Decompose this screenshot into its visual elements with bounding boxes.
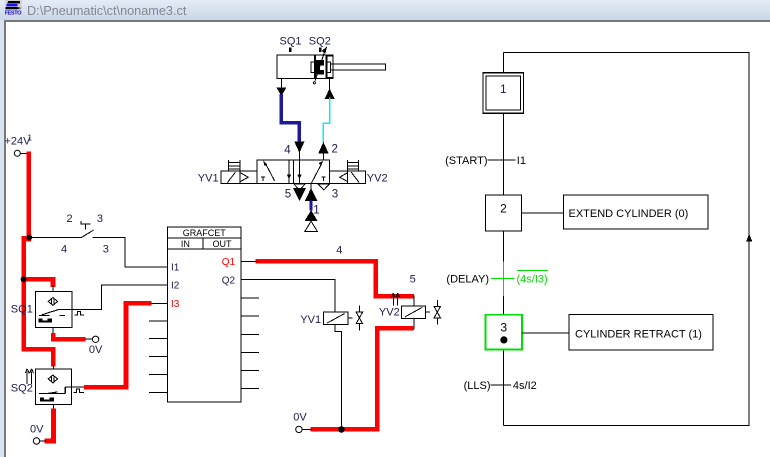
compressed air source (port 1) bbox=[305, 221, 317, 231]
junction node (24V/SQ1) bbox=[21, 276, 27, 282]
svg-text:4: 4 bbox=[336, 245, 342, 257]
wire 0V stub (rail) bbox=[302, 428, 312, 430]
svg-text:YV2: YV2 bbox=[379, 306, 400, 318]
wire 24V to SQ2 (red) bbox=[24, 349, 54, 366]
SQ1 contact (open) bbox=[39, 309, 65, 315]
wire 0V stub (SQ1) bbox=[85, 338, 92, 340]
junction node (0V rail) bbox=[338, 426, 345, 433]
svg-text:Q2: Q2 bbox=[222, 275, 236, 286]
transition START tick bbox=[487, 159, 515, 161]
solenoid YV1 (valve left) bbox=[221, 171, 257, 183]
wire SQ2 output pin bbox=[65, 386, 85, 388]
svg-text:IN: IN bbox=[181, 239, 190, 249]
proximity switch SQ1 box bbox=[35, 291, 72, 327]
valve 1V1 body (5/2 way) bbox=[257, 160, 330, 184]
wire 24V rail upper (red) bbox=[26, 151, 31, 241]
svg-text:Q1: Q1 bbox=[222, 257, 236, 268]
svg-text:SQ2: SQ2 bbox=[309, 35, 331, 47]
svg-text:2: 2 bbox=[332, 144, 338, 156]
pressure segment port 1 (dark blue) bbox=[310, 201, 313, 211]
active step dot bbox=[500, 336, 507, 343]
sensor mark SQ1 bbox=[289, 48, 291, 53]
wire step3 to action bbox=[522, 332, 569, 334]
svg-text:3: 3 bbox=[97, 213, 103, 225]
edge symbol SQ2 bbox=[74, 389, 84, 392]
svg-text:SQ2: SQ2 bbox=[11, 383, 33, 395]
switch S1 actuator symbol bbox=[80, 221, 90, 229]
wire 24V rail lower (red) bbox=[21, 236, 26, 352]
wire valve port 4 bbox=[298, 152, 300, 160]
wire SQ2 top pin bbox=[52, 364, 54, 369]
solenoid YV2 (valve right) bbox=[330, 171, 366, 183]
SQ1 sensor diamond bbox=[48, 298, 57, 306]
cylinder piston bbox=[311, 56, 331, 79]
exhaust line (cyan) valve port 2 to cylinder bbox=[323, 98, 329, 143]
svg-text:3: 3 bbox=[332, 188, 338, 200]
svg-text:I1: I1 bbox=[517, 155, 526, 167]
svg-text:1: 1 bbox=[28, 134, 33, 143]
SQ2 sensor diamond bbox=[48, 375, 57, 383]
valve link symbol YV2 bbox=[434, 300, 440, 324]
svg-text:4s/I2: 4s/I2 bbox=[513, 380, 537, 392]
svg-text:0V: 0V bbox=[293, 411, 307, 423]
svg-text:4: 4 bbox=[61, 243, 67, 255]
wire SQ1 bottom pin bbox=[52, 327, 54, 334]
terminal 0V (SQ2) bbox=[33, 438, 39, 444]
wire +24V terminal stub bbox=[20, 152, 27, 154]
wire 0V stub (SQ2) bbox=[40, 440, 46, 442]
pressure line (dark blue) cylinder to valve port 4 bbox=[281, 94, 299, 142]
relay coil YV2 bbox=[401, 306, 425, 319]
wire YV1 right pin bbox=[348, 317, 353, 319]
svg-text:CYLINDER RETRACT (1): CYLINDER RETRACT (1) bbox=[575, 329, 702, 341]
wire valve port 2 bbox=[322, 153, 324, 160]
wire YV2 top pin bbox=[413, 296, 415, 306]
svg-text:(LLS): (LLS) bbox=[464, 380, 491, 392]
flow arrow up (port 1 lower) bbox=[305, 210, 318, 221]
output stubs Q1-Q8 bbox=[241, 261, 259, 388]
GRAFCET controller block bbox=[168, 227, 241, 402]
svg-text:YV1: YV1 bbox=[198, 172, 219, 184]
edge symbol SQ1 bbox=[75, 312, 84, 315]
svg-text:3: 3 bbox=[500, 321, 507, 335]
svg-text:0V: 0V bbox=[89, 344, 103, 356]
switch S1 contact blade bbox=[81, 230, 94, 238]
terminal +24V bbox=[14, 150, 20, 156]
valve left cell internals bbox=[261, 160, 291, 184]
wire YV2 right pin bbox=[425, 311, 429, 313]
SQ2 contact (closed) bbox=[39, 387, 65, 394]
flow arrow up (port 1 upper) bbox=[305, 188, 318, 201]
step 1 (initial) bbox=[483, 73, 524, 114]
manual override YV2 bbox=[347, 160, 358, 171]
svg-text:YV2: YV2 bbox=[367, 172, 388, 184]
svg-text:1: 1 bbox=[313, 204, 319, 216]
manual override YV1 bbox=[229, 160, 240, 171]
cylinder 1A1 body bbox=[277, 55, 333, 79]
svg-text:2: 2 bbox=[500, 202, 507, 216]
SQ2 actuated arrows bbox=[25, 369, 33, 384]
wire 24V rail jog (red) bbox=[21, 237, 31, 242]
svg-text:(START): (START) bbox=[445, 155, 487, 167]
transition LLS tick bbox=[491, 384, 512, 386]
exhaust symbol port 3 bbox=[318, 184, 329, 190]
svg-text:SQ1: SQ1 bbox=[11, 303, 33, 315]
svg-text:0V: 0V bbox=[30, 424, 44, 436]
wire Q1 to YV2 (red) bbox=[255, 261, 414, 296]
flow arrow up (valve port 2) bbox=[318, 142, 329, 154]
wire YV2 return (red) bbox=[311, 328, 414, 429]
exhaust symbol port 5 bbox=[294, 184, 305, 190]
action box EXTEND CYLINDER bbox=[563, 195, 708, 229]
wire Q2 to YV1 bbox=[259, 280, 335, 313]
wire SQ1 to 0V (red) bbox=[53, 333, 85, 339]
svg-text:I2: I2 bbox=[171, 281, 180, 292]
FESTO icon bbox=[5, 0, 23, 16]
terminal 0V (SQ1) bbox=[92, 336, 98, 342]
action box CYLINDER RETRACT bbox=[569, 314, 713, 350]
piston position sensor arrow bbox=[313, 46, 327, 84]
relay coil YV1 bbox=[324, 312, 349, 324]
valve right cell internals bbox=[297, 160, 325, 184]
flow arrow down (left port) bbox=[276, 87, 286, 96]
svg-text:YV1: YV1 bbox=[300, 314, 321, 326]
wire SQ1 top pin bbox=[52, 285, 54, 291]
svg-text:OUT: OUT bbox=[213, 239, 233, 249]
step 3 (active, green) bbox=[486, 315, 523, 350]
valve link symbol YV1 bbox=[356, 305, 362, 330]
wire I3 stub tip bbox=[149, 302, 153, 304]
wire switch to I1 bbox=[93, 237, 168, 267]
svg-text:GRAFCET: GRAFCET bbox=[183, 228, 227, 238]
SQ2 reed element bbox=[40, 397, 54, 401]
flow arrow up (right port) bbox=[325, 88, 335, 98]
wire SQ2 to 0V (red) bbox=[45, 409, 54, 441]
sensor mark SQ2 bbox=[319, 48, 321, 53]
grafcet feedback loop bbox=[503, 53, 749, 426]
grafcet chart main line bbox=[502, 53, 504, 426]
terminal 0V (rail) bbox=[296, 426, 302, 432]
SQ1 reed element bbox=[39, 318, 52, 322]
wire cylinder right port bbox=[329, 79, 331, 89]
proximity switch SQ2 box bbox=[35, 369, 71, 405]
input stubs I1-I8 bbox=[149, 267, 168, 393]
svg-text:5: 5 bbox=[410, 274, 416, 286]
svg-text:EXTEND CYLINDER (0): EXTEND CYLINDER (0) bbox=[569, 208, 689, 220]
YV2 energized arrows bbox=[392, 293, 400, 305]
step 2 bbox=[486, 195, 522, 231]
wire YV1 bottom pin bbox=[335, 324, 341, 429]
svg-text:I1: I1 bbox=[171, 263, 180, 274]
junction node (24V/switch) bbox=[26, 235, 32, 241]
wire cylinder left port bbox=[280, 79, 282, 88]
svg-text:3: 3 bbox=[103, 243, 109, 255]
svg-text:(DELAY): (DELAY) bbox=[446, 273, 489, 285]
svg-text:1: 1 bbox=[500, 82, 507, 96]
wire SQ2 to I3 (red) bbox=[84, 303, 152, 387]
wire 24V to SQ1 (red) bbox=[24, 279, 53, 287]
transition DELAY tick (green) bbox=[491, 261, 548, 296]
cylinder piston rod bbox=[326, 56, 385, 77]
feedback direction arrow bbox=[746, 234, 752, 242]
svg-text:I3: I3 bbox=[171, 299, 180, 310]
wire SQ2 bottom pin bbox=[53, 405, 55, 410]
wire SQ1 output to I2 bbox=[59, 285, 168, 309]
wire YV2 bottom pin bbox=[413, 318, 415, 329]
svg-text:4: 4 bbox=[284, 144, 291, 156]
wire step2 to action bbox=[521, 212, 563, 214]
svg-text:2: 2 bbox=[67, 213, 73, 225]
flow arrow down (valve port 4) bbox=[294, 141, 304, 152]
svg-text:5: 5 bbox=[285, 188, 291, 200]
wire Q1 stub tip bbox=[255, 260, 259, 262]
wire switch feed bbox=[29, 236, 81, 238]
svg-text:SQ1: SQ1 bbox=[280, 35, 302, 47]
svg-text:(4s/I3): (4s/I3) bbox=[517, 273, 548, 285]
wire valve port 1 bbox=[310, 184, 312, 190]
flow arrow down (port 5) bbox=[293, 188, 306, 201]
